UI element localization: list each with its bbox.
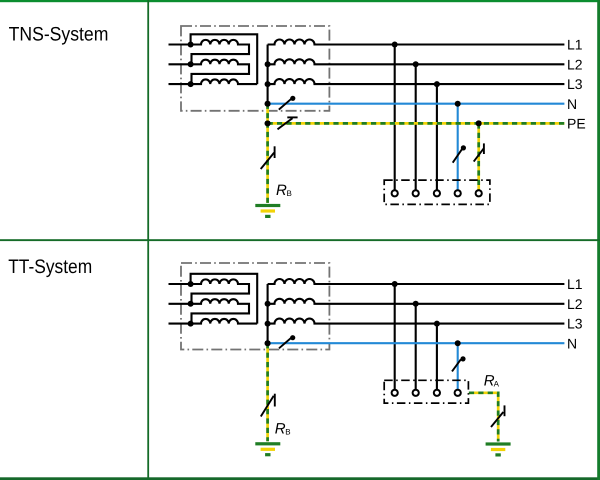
- svg-text:L2: L2: [567, 296, 583, 312]
- svg-text:B: B: [285, 427, 290, 436]
- svg-text:L3: L3: [567, 76, 583, 92]
- svg-text:N: N: [567, 96, 577, 112]
- svg-text:L2: L2: [567, 56, 583, 72]
- svg-text:TNS-System: TNS-System: [9, 23, 109, 45]
- svg-text:R: R: [276, 182, 287, 199]
- svg-text:L1: L1: [567, 276, 583, 292]
- svg-text:A: A: [494, 380, 500, 389]
- svg-text:B: B: [287, 189, 292, 198]
- svg-text:R: R: [275, 420, 286, 437]
- svg-text:TT-System: TT-System: [8, 256, 92, 278]
- svg-text:N: N: [567, 335, 577, 351]
- svg-text:L3: L3: [567, 316, 583, 332]
- svg-text:PE: PE: [567, 116, 586, 132]
- svg-text:L1: L1: [567, 37, 583, 53]
